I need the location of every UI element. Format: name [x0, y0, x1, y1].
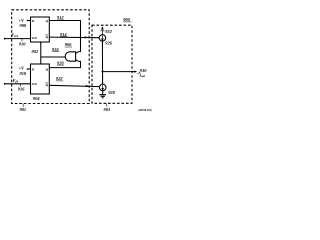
flip-flop U902 box	[31, 17, 50, 42]
svg-text:932: 932	[105, 29, 112, 34]
node dot +V to D of U904	[27, 68, 29, 70]
pin Qbar overbar U902	[46, 34, 48, 36]
svg-text:922: 922	[56, 76, 63, 81]
pin R stub U902 tick	[40, 42, 42, 44]
leader tick 910	[21, 39, 23, 41]
svg-text:930: 930	[140, 68, 147, 73]
svg-text:CLK: CLK	[32, 83, 37, 86]
svg-text:912: 912	[57, 15, 64, 20]
wire 912 Q of U902 to AND gate top input	[49, 21, 80, 54]
wire +V to D of U902	[27, 20, 31, 22]
arrowhead on Fref input	[4, 38, 7, 40]
current source I928 circle	[99, 84, 106, 91]
svg-text:920: 920	[57, 60, 64, 65]
switch 932 symbol above I926	[100, 27, 104, 35]
svg-text:918: 918	[20, 71, 27, 76]
svg-text:901: 901	[20, 107, 27, 112]
current source I928 arrow	[102, 85, 104, 90]
arrowhead on wire 914	[85, 36, 88, 38]
svg-text:Fref: Fref	[11, 32, 19, 37]
node dot +V to D of U902	[27, 20, 29, 22]
svg-text:928: 928	[108, 90, 115, 95]
wire 924 reset rail from AND gate output	[41, 56, 65, 58]
pin Qbar overbar U904	[46, 82, 48, 84]
wire Iout 930 output	[103, 71, 136, 73]
svg-text:900: 900	[123, 17, 130, 22]
svg-text:908: 908	[20, 23, 27, 28]
wire Ffb input to CLK of U904	[4, 83, 31, 85]
flip-flop U904 box	[31, 64, 50, 94]
svg-text:CLK: CLK	[32, 37, 37, 40]
svg-text:914: 914	[60, 32, 67, 37]
arrowhead Iout	[134, 71, 137, 73]
svg-text:902: 902	[32, 49, 39, 54]
arrowhead on wire 922	[86, 85, 89, 87]
node output junction	[102, 71, 104, 73]
leader tick 903	[106, 103, 108, 106]
current source I926 circle	[99, 35, 105, 41]
svg-text:903: 903	[104, 107, 111, 112]
arrowhead on Ffb input	[4, 83, 7, 85]
svg-text:904: 904	[33, 96, 40, 101]
svg-text:Ffb: Ffb	[13, 78, 19, 83]
svg-text:916: 916	[18, 86, 25, 91]
svg-text:910: 910	[19, 41, 26, 46]
AND gate 906 (mirrored, output left)	[65, 52, 75, 61]
svg-text:906: 906	[65, 42, 72, 47]
wire main vertical I926 to I928	[101, 41, 103, 84]
wire reset vertical U902.R to U904.R	[40, 42, 42, 64]
svg-text:Iout: Iout	[139, 74, 146, 78]
ground under I928	[99, 91, 106, 98]
current source I926 arrow	[102, 36, 104, 41]
wire Fref input to CLK of U902	[4, 38, 31, 40]
svg-text:924: 924	[52, 47, 59, 52]
dashed box 901 (PFD block)	[12, 10, 90, 104]
wire 922 Qbar of U904 to current source 928	[49, 85, 99, 86]
leader tick 916	[19, 84, 21, 86]
leader tick 901	[22, 104, 24, 107]
leader arc for 930	[138, 72, 141, 74]
wire 920 Q of U904 to AND gate bottom input	[49, 60, 80, 68]
dashed box 903 (charge pump block)	[92, 25, 132, 103]
svg-text:926: 926	[105, 41, 112, 46]
svg-text:(PRIOR ART): (PRIOR ART)	[138, 108, 151, 112]
wire 914 Qbar of U902 to current source 926	[49, 36, 99, 39]
wire +V to D of U904	[27, 68, 31, 70]
